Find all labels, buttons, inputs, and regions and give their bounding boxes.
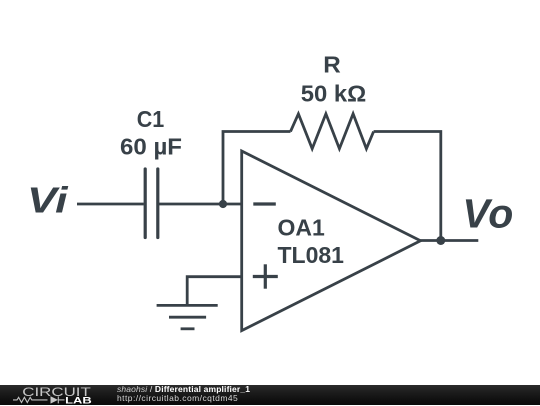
svg-text:R: R — [323, 52, 341, 78]
op-amp minus input symbol — [253, 202, 275, 205]
footer text — [117, 385, 250, 403]
resistor R — [291, 114, 374, 149]
op-amp OA1 triangle — [242, 151, 421, 331]
svg-text:Vo: Vo — [462, 191, 513, 237]
wire node up to resistor — [223, 132, 291, 205]
svg-text:C1: C1 — [137, 106, 165, 132]
capacitor C1 — [145, 169, 158, 238]
wire C1 to inverting input — [159, 203, 242, 206]
CircuitLab logo — [0, 385, 110, 406]
svg-text:60 µF: 60 µF — [120, 134, 182, 160]
wire non-inverting input to ground — [187, 277, 242, 306]
svg-text:50 kΩ: 50 kΩ — [301, 81, 367, 107]
node junction dot at inverting input — [219, 200, 227, 208]
node junction dot at output — [436, 236, 445, 245]
svg-text:TL081: TL081 — [278, 242, 345, 268]
op-amp plus input symbol — [253, 264, 278, 288]
ground — [157, 305, 218, 328]
footer bar — [0, 385, 540, 406]
wire resistor to output node — [374, 132, 441, 241]
wire Vi to C1 — [77, 203, 144, 206]
svg-text:Vi: Vi — [27, 180, 69, 221]
wire op-amp output to Vo — [421, 239, 479, 242]
svg-text:OA1: OA1 — [278, 215, 326, 241]
svg-text:LAB: LAB — [65, 395, 92, 405]
